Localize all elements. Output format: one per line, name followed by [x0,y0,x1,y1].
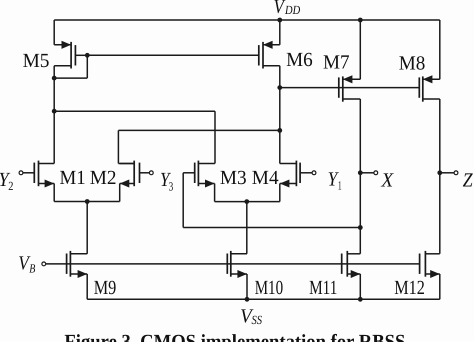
svg-text:Figure 3. CMOS implementation: Figure 3. CMOS implementation for RBSS [64,331,405,342]
svg-text:B: B [29,261,35,275]
svg-text:M12: M12 [394,277,425,299]
svg-text:M2: M2 [90,167,117,189]
transistor M12 (NMOS) [420,251,440,278]
node V_DD junction dot (M6 source) [277,18,282,23]
wire tail down to M10 drain [246,202,248,254]
svg-text:M11: M11 [309,277,337,299]
wire V_B bias bus to all bottom gates [46,263,420,265]
wire M7 source to V_DD rail [359,20,361,79]
node M3/M4 tail junction dot [244,199,249,204]
wire M3 gate down [182,173,184,228]
svg-text:DD: DD [284,3,300,17]
terminal Y2 circle [19,171,23,175]
wire M7 drain down to X node and M11 drain [359,99,361,254]
svg-text:1: 1 [338,178,342,192]
wire M2 drain lead horizontal [118,163,134,165]
node X junction dot [358,170,363,175]
wire M1 source down [53,184,55,202]
wire M3 gate lead left [183,172,195,174]
svg-text:2: 2 [8,179,13,193]
svg-text:M10: M10 [255,277,283,299]
node V_SS junction dot (M11 source) [358,297,363,302]
svg-text:Z: Z [463,170,474,192]
wire M5 drain down to M1 drain (node A) [53,66,55,164]
node A junction dot (M5 drain / M1 drain / M3 drain) [52,109,57,114]
wire M5 gate lead to gate node [75,54,87,56]
svg-text:M3: M3 [220,167,247,189]
wire M3 gate to X node horizontal [183,227,360,229]
wire M8 drain down to Z node and M12 drain [439,99,441,254]
wire M2 gate to Y3 terminal [140,172,150,174]
wire M4 gate to Y1 terminal [300,172,312,174]
svg-text:M4: M4 [252,167,279,189]
terminal V_B circle [42,262,46,266]
wire M2 drain up [117,130,119,163]
wire M4 source down to tail [279,184,281,202]
wire M11 source down to V_SS rail [359,274,361,299]
node B junction dot (M6 drain / M7-M8 gate tap) [277,85,282,90]
svg-text:M5: M5 [23,50,50,72]
wire M3 drain up to node A wire [214,163,216,165]
transistor M10 (NMOS) [227,251,247,278]
transistor M4 (NMOS) [280,161,300,188]
node M1/M2 tail junction dot [85,199,90,204]
terminal Y1 circle [312,171,316,175]
svg-text:3: 3 [169,179,174,193]
wire node A to M3 drain horizontal [54,110,215,112]
wire tail down to M9 drain [86,202,88,254]
transistor M9 (NMOS) [67,251,88,278]
wire M8 source to V_DD rail [439,20,441,79]
transistor M11 (NMOS) [342,251,361,278]
svg-text:M6: M6 [286,49,313,71]
transistor M5 (PMOS, diode-connected) [54,41,75,69]
node B junction dot (M2 drain tap) [277,128,282,133]
node Z junction dot [437,170,442,175]
node V_DD junction dot (M7 source) [358,18,363,23]
svg-text:M9: M9 [94,277,117,299]
wire M7/M8 gate bus from node B [280,87,420,89]
transistor M7 (PMOS) [339,75,361,101]
node M5 gate/drain tie junction dot [85,53,90,58]
wire M5 gate-drain tie vertical [86,55,88,78]
node M5 drain junction dot [52,76,57,81]
wire Y2 terminal to M1 gate [23,172,34,174]
transistor M3 (NMOS) [195,161,215,188]
wire M9 source down to V_SS rail [86,274,88,299]
svg-text:M8: M8 [399,53,426,75]
transistor M8 (PMOS) [419,75,440,101]
wire V_SS supply rail [87,298,440,300]
wire Z node stub [440,172,454,174]
wire M5 gate-drain tie horizontal [54,77,87,79]
transistor M6 (PMOS) [259,41,280,69]
svg-text:M1: M1 [60,167,86,189]
transistor M2 (NMOS) [120,161,140,188]
wire M5-M6 gate bus [87,54,258,56]
wire X node stub [360,172,374,174]
wire M3/M4 source tail horizontal [215,201,280,203]
wire M1/M2 source tail horizontal [54,201,120,203]
wire M10 source down to V_SS rail [246,274,248,299]
wire node A to M3 drain vertical [214,111,216,163]
node V_SS junction dot (M10 source) [245,297,250,302]
wire M2 source down to tail [119,184,121,202]
svg-text:M7: M7 [323,51,350,73]
wire M12 source down to V_SS rail [439,274,441,299]
terminal Z circle [454,171,458,175]
wire M2 drain to node B horizontal [118,129,279,131]
wire M5 source to V_DD rail [53,20,55,45]
svg-text:X: X [380,169,394,191]
node X junction dot (M3 gate wire tap) [358,225,363,230]
wire V_DD supply rail [54,19,440,21]
transistor M1 (NMOS) [34,161,54,188]
terminal X circle [374,171,378,175]
wire M6 drain down to M4 drain (node B) [279,66,281,164]
terminal Y3 circle [149,171,153,175]
wire M3 source down [214,184,216,202]
wire M6 source to V_DD rail [279,20,281,45]
svg-text:SS: SS [252,313,263,327]
